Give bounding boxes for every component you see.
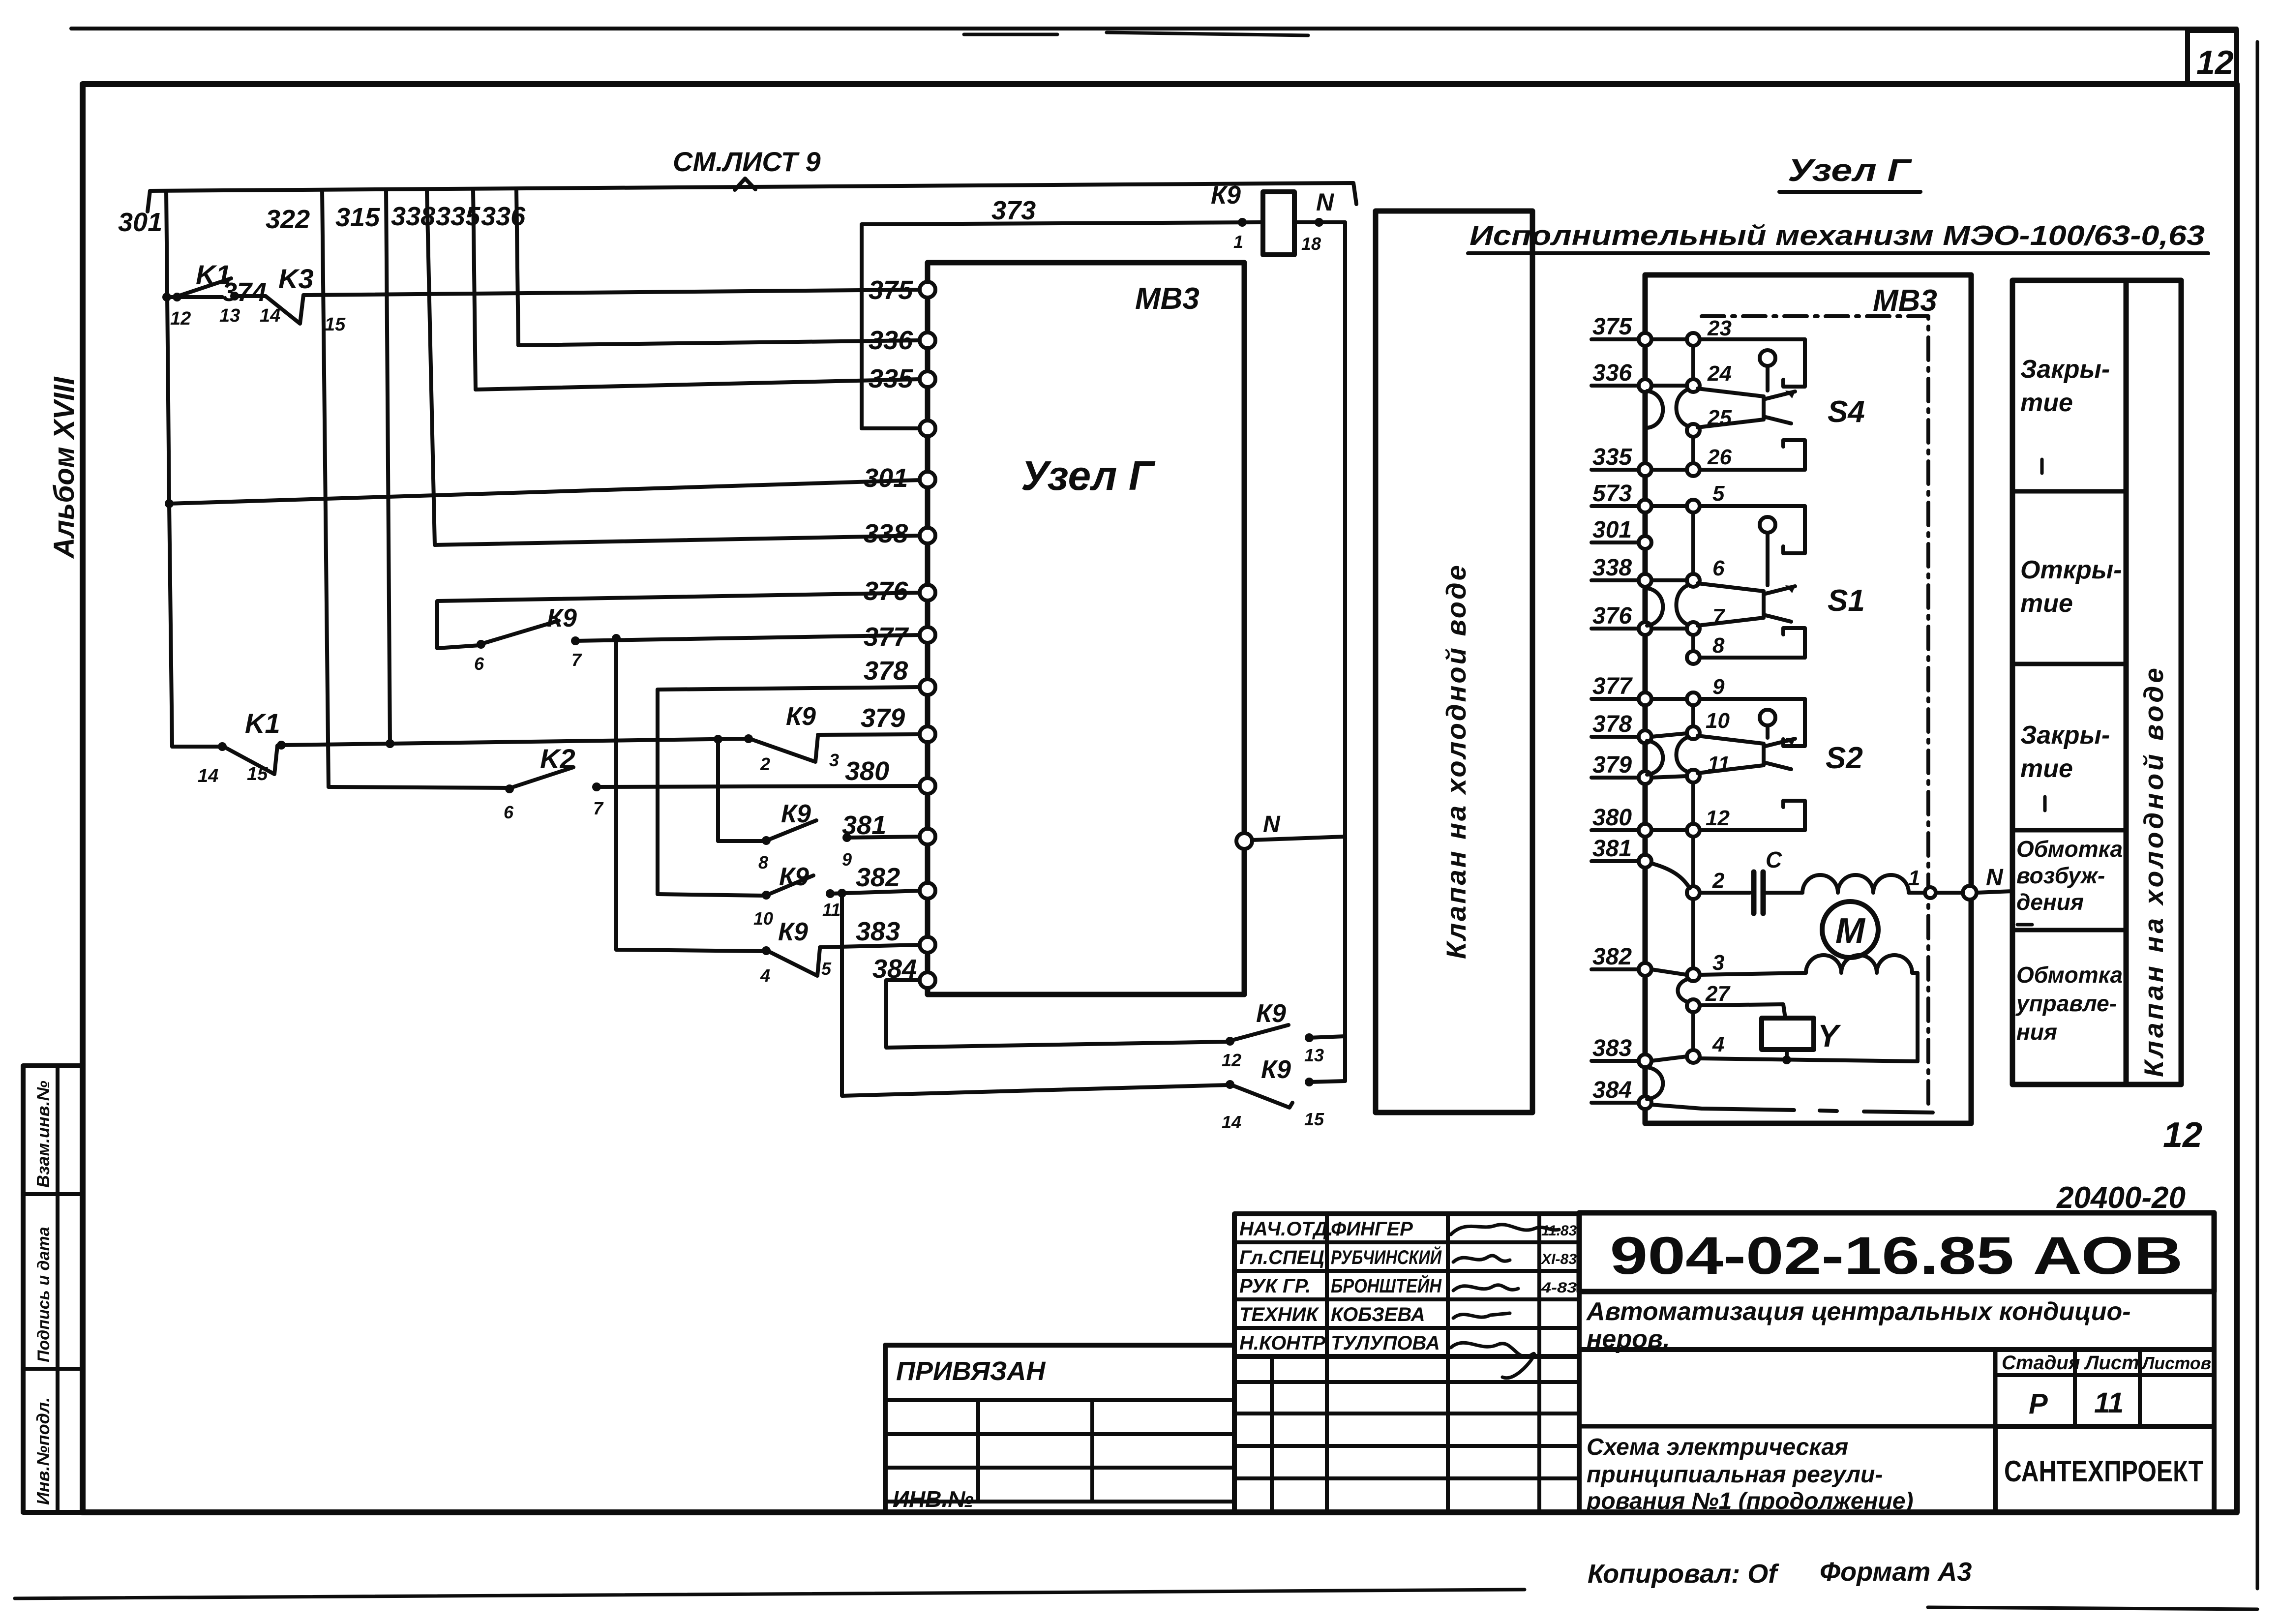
svg-text:Обмотка: Обмотка [2016, 836, 2123, 862]
wire 373 [862, 222, 1263, 428]
svg-text:301: 301 [118, 208, 162, 237]
svg-text:НАЧ.ОТД.: НАЧ.ОТД. [1239, 1218, 1333, 1240]
terminal 336 [1639, 379, 1651, 392]
svg-text:12: 12 [170, 308, 191, 329]
box Клапан на холодной воде (right valve) [2126, 280, 2181, 1084]
svg-text:12: 12 [2196, 44, 2234, 81]
svg-text:15: 15 [247, 764, 268, 784]
svg-text:РУК ГР.: РУК ГР. [1239, 1275, 1311, 1297]
svg-text:Листов: Листов [2141, 1353, 2211, 1373]
pin 26 [1687, 463, 1700, 476]
terminal 335 [1639, 463, 1651, 476]
svg-text:3: 3 [1712, 951, 1724, 975]
svg-text:379: 379 [1592, 752, 1632, 778]
svg-text:378: 378 [1592, 711, 1632, 737]
svg-text:381: 381 [1592, 836, 1632, 862]
motor M [1822, 902, 1878, 958]
svg-text:управле-: управле- [2015, 991, 2117, 1016]
svg-text:К9: К9 [1261, 1055, 1291, 1084]
svg-text:N: N [1263, 812, 1281, 838]
svg-text:Р: Р [2029, 1388, 2048, 1420]
svg-text:383: 383 [856, 917, 900, 946]
wire 377 [575, 635, 920, 641]
svg-text:375: 375 [1592, 314, 1632, 340]
wire pin 4 row [1700, 1058, 1918, 1061]
wire 15 to N [1309, 1081, 1345, 1082]
terminal 380 [1639, 824, 1651, 837]
terminal 378 [1639, 730, 1651, 743]
node 380 stub [1591, 828, 1639, 832]
svg-text:8: 8 [758, 852, 768, 872]
pin 2 [1687, 886, 1700, 899]
pin 11 [1687, 770, 1700, 782]
terminal N [1963, 886, 1977, 900]
wire winding loop [1912, 973, 1918, 1061]
svg-text:Клапан на холодной воде: Клапан на холодной воде [2138, 665, 2169, 1077]
pin 7 [1687, 622, 1700, 635]
svg-text:3: 3 [829, 750, 839, 770]
jumper pins 10-11 [1677, 736, 1692, 773]
bracket marker [735, 179, 755, 190]
svg-text:23: 23 [1707, 316, 1732, 340]
svg-text:336: 336 [1592, 360, 1632, 386]
svg-text:ПРИВЯЗАН: ПРИВЯЗАН [896, 1356, 1046, 1386]
svg-text:338: 338 [1592, 555, 1632, 581]
svg-text:383: 383 [1592, 1035, 1632, 1061]
svg-text:15: 15 [325, 314, 346, 335]
relay coil K9 [1238, 218, 1247, 227]
svg-text:336: 336 [869, 326, 913, 355]
svg-text:Узел Г: Узел Г [1021, 452, 1156, 499]
svg-text:K2: K2 [540, 743, 575, 774]
wire pin 3 row [1700, 973, 1806, 975]
svg-text:тие: тие [2020, 589, 2073, 618]
svg-text:301: 301 [864, 463, 908, 493]
svg-text:Копировал: Оf: Копировал: Оf [1588, 1559, 1779, 1589]
wire 335 horizontal [476, 379, 920, 390]
svg-text:14: 14 [198, 766, 218, 786]
svg-text:1: 1 [1233, 232, 1243, 252]
wire Y bottom [1785, 1050, 1789, 1060]
svg-text:13: 13 [1304, 1045, 1324, 1065]
svg-text:ТУЛУПОВА: ТУЛУПОВА [1331, 1332, 1440, 1354]
jumper hop 338-376 [1647, 588, 1663, 626]
svg-text:322: 322 [266, 205, 310, 234]
svg-text:тие: тие [2020, 754, 2073, 783]
wire bus СМ.ЛИСТ 9 [148, 183, 1356, 211]
wire 335 vertical dropper [473, 190, 476, 390]
pin 27 [1687, 999, 1700, 1012]
svg-text:К9: К9 [1211, 181, 1241, 210]
svg-text:336: 336 [481, 202, 526, 231]
svg-text:XI-83: XI-83 [1540, 1251, 1577, 1267]
svg-text:Узел Г: Узел Г [1788, 152, 1912, 188]
svg-text:14: 14 [1222, 1112, 1241, 1132]
svg-text:6: 6 [474, 654, 484, 674]
svg-text:12: 12 [2163, 1115, 2202, 1155]
wire 382 [830, 891, 920, 894]
svg-text:ФИНГЕР: ФИНГЕР [1331, 1218, 1413, 1240]
svg-text:377: 377 [864, 622, 909, 652]
svg-text:дения: дения [2016, 889, 2084, 915]
svg-text:4: 4 [1712, 1032, 1724, 1056]
svg-text:Лист: Лист [2084, 1352, 2139, 1374]
svg-text:26: 26 [1707, 445, 1732, 469]
terminals of Узел Г [920, 282, 935, 298]
terminal 381 [1639, 855, 1651, 868]
svg-text:Гл.СПЕЦ: Гл.СПЕЦ [1239, 1247, 1324, 1268]
svg-text:384: 384 [1592, 1077, 1632, 1103]
pin 4 [1687, 1050, 1700, 1063]
terminal 375 [1639, 333, 1651, 346]
jumper pins 3-27 [1678, 978, 1692, 1003]
wire 336 horizontal [518, 340, 920, 345]
svg-text:ТЕХНИК: ТЕХНИК [1239, 1304, 1319, 1325]
device boundary МВ3 dash-dot [1702, 316, 1928, 1110]
svg-text:338: 338 [864, 519, 908, 548]
box Клапан на холодной воде (left valve) [1376, 211, 1532, 1113]
svg-text:К9: К9 [778, 918, 808, 946]
contact K1 (12-13) [167, 295, 222, 299]
winding control (обмотка управления) [1806, 955, 1912, 973]
svg-text:5: 5 [1712, 481, 1725, 506]
svg-text:335: 335 [869, 364, 913, 393]
terminal 376 [1639, 622, 1651, 635]
svg-text:К9: К9 [781, 800, 811, 828]
wire pin 27 to Y [1700, 1004, 1785, 1018]
svg-text:7: 7 [571, 650, 582, 670]
svg-text:САНТЕХПРОЕКТ: САНТЕХПРОЕКТ [2004, 1455, 2203, 1488]
svg-text:Y: Y [1818, 1018, 1841, 1053]
wire 338 vertical dropper [427, 190, 435, 545]
svg-text:Взам.инв.№: Взам.инв.№ [33, 1081, 53, 1188]
terminal 301 [1639, 536, 1651, 549]
svg-text:9: 9 [1712, 675, 1725, 699]
jumper pins 6-7 [1677, 584, 1692, 626]
svg-text:рования №1 (продолжение): рования №1 (продолжение) [1586, 1488, 1913, 1514]
switch S1 [1698, 506, 1805, 658]
node 381 stub [1591, 859, 1639, 863]
wire feeder 11 to K9 14-15 [842, 893, 1229, 1096]
svg-text:27: 27 [1705, 982, 1731, 1006]
wire 338 horizontal [435, 536, 920, 545]
wire N stub [1252, 837, 1345, 840]
svg-text:K1: K1 [245, 708, 280, 739]
node 301 stub [1591, 541, 1639, 544]
svg-text:Подпись и дата: Подпись и дата [34, 1227, 53, 1362]
terminal 338 [1639, 574, 1651, 587]
contact K2 (6-7) [329, 787, 508, 788]
wire 384 to K9 12-13 [886, 980, 1229, 1048]
svg-text:9: 9 [842, 849, 852, 870]
svg-text:376: 376 [864, 576, 908, 606]
svg-text:Инв.№подл.: Инв.№подл. [33, 1397, 53, 1505]
wire 376 horizontal [437, 593, 920, 648]
svg-text:10: 10 [753, 908, 773, 929]
svg-text:Схема электрическая: Схема электрическая [1587, 1434, 1848, 1460]
svg-text:904-02-16.85 АОВ: 904-02-16.85 АОВ [1610, 1226, 2183, 1285]
svg-text:1: 1 [1908, 866, 1920, 890]
svg-text:6: 6 [504, 802, 514, 822]
svg-text:573: 573 [1592, 481, 1632, 507]
svg-text:Закры-: Закры- [2020, 355, 2110, 384]
node 384 stub [1591, 1101, 1639, 1105]
switch S4 [1698, 339, 1805, 470]
wire 374 [235, 294, 266, 298]
svg-text:Закры-: Закры- [2020, 721, 2110, 750]
svg-text:РУБЧИНСКИЙ: РУБЧИНСКИЙ [1331, 1245, 1442, 1268]
pin 23 [1687, 333, 1700, 346]
wire 380 [597, 786, 920, 787]
svg-text:КОБЗЕВА: КОБЗЕВА [1331, 1304, 1425, 1325]
svg-text:4-83: 4-83 [1541, 1280, 1577, 1296]
node 383 stub [1591, 1059, 1639, 1063]
svg-text:11: 11 [822, 900, 840, 920]
svg-text:381: 381 [842, 811, 886, 840]
box actuator МЭО enclosure [1645, 275, 1971, 1123]
wire 315 vertical dropper [386, 190, 390, 744]
contact K3 (14-15) [266, 295, 303, 324]
svg-text:К9: К9 [786, 702, 816, 731]
svg-text:377: 377 [1592, 673, 1633, 699]
svg-text:373: 373 [991, 196, 1036, 225]
svg-text:K3: K3 [278, 263, 314, 294]
svg-text:376: 376 [1592, 603, 1632, 629]
pin 6 [1687, 574, 1700, 587]
node 378 stub [1591, 735, 1639, 739]
capacitor C [1700, 891, 1750, 895]
terminal 379 [1639, 771, 1651, 784]
svg-text:374: 374 [222, 277, 267, 307]
wire 301 horizontal [169, 480, 920, 504]
node 375 stub [1591, 337, 1639, 341]
wire pin1 to N [1909, 891, 1970, 895]
pin 25 [1687, 424, 1700, 437]
jumper hop 383-384 [1647, 1067, 1663, 1099]
terminal 377 [1639, 692, 1651, 705]
contact K9 (6-7) [437, 645, 480, 648]
svg-text:380: 380 [845, 756, 889, 786]
svg-text:МВ3: МВ3 [1873, 284, 1937, 318]
svg-text:7: 7 [593, 798, 604, 818]
svg-text:N: N [1316, 188, 1334, 216]
node 336 stub [1591, 384, 1639, 388]
svg-text:2: 2 [1712, 869, 1725, 893]
svg-text:МВ3: МВ3 [1135, 282, 1200, 316]
svg-text:380: 380 [1592, 805, 1632, 831]
svg-text:384: 384 [872, 954, 917, 984]
connector 381 to pin 2 [1652, 864, 1690, 888]
node 376 stub [1591, 627, 1639, 631]
svg-text:15: 15 [1304, 1109, 1324, 1129]
svg-text:К9: К9 [1256, 999, 1286, 1028]
pin 10 [1687, 726, 1700, 739]
jumper hop 336-335 [1647, 391, 1663, 428]
svg-text:4: 4 [760, 965, 770, 986]
svg-text:БРОНШТЕЙН: БРОНШТЕЙН [1331, 1274, 1442, 1297]
contact K9 (2-3) [744, 734, 753, 743]
svg-text:6: 6 [1712, 556, 1725, 580]
svg-text:382: 382 [856, 863, 900, 892]
wire N stub right [1977, 891, 2012, 893]
wire terminal bus [1643, 339, 1647, 1103]
jumper pins 24-25 [1677, 389, 1692, 427]
svg-text:Альбом XVIII: Альбом XVIII [48, 376, 80, 559]
svg-text:335: 335 [436, 202, 480, 231]
svg-text:Формат А3: Формат А3 [1820, 1557, 1972, 1587]
svg-text:Стадия: Стадия [2002, 1352, 2080, 1374]
wire 375 to node [303, 290, 920, 295]
box Узел Г (МВ3 unit) [928, 263, 1244, 994]
svg-text:ИНВ.№: ИНВ.№ [893, 1486, 974, 1512]
svg-text:Клапан на холодной вод: Клапан на холодной воде [1440, 563, 1471, 959]
wire 13 to N [1309, 1036, 1345, 1038]
svg-text:S1: S1 [1828, 584, 1865, 618]
contact K9 (4-5) [616, 950, 765, 951]
svg-text:301: 301 [1592, 517, 1632, 543]
terminal 383 [1639, 1054, 1651, 1067]
wire row 15-2 [281, 739, 748, 745]
contact K9 (10-11) [658, 894, 765, 896]
terminal 382 [1639, 963, 1651, 976]
winding excitation (обмотка возбуждения) [1763, 891, 1802, 895]
svg-text:24: 24 [1707, 361, 1732, 386]
svg-text:К9: К9 [547, 604, 577, 632]
svg-text:C: C [1766, 847, 1782, 872]
svg-text:12: 12 [1222, 1050, 1241, 1070]
svg-text:Обмотка: Обмотка [2016, 962, 2123, 988]
wire 383 [820, 945, 920, 947]
svg-text:20400-20: 20400-20 [2056, 1181, 2186, 1215]
svg-text:375: 375 [869, 275, 913, 305]
svg-text:338: 338 [391, 202, 435, 231]
pin 9 [1687, 692, 1700, 705]
svg-text:315: 315 [335, 203, 380, 232]
terminal N of Узел Г [1236, 833, 1252, 849]
wire 301 vertical dropper [166, 191, 172, 747]
contact K9 (12-13) [1226, 1037, 1234, 1046]
svg-text:принципиальная регули-: принципиальная регули- [1587, 1462, 1883, 1488]
pin 8 [1687, 651, 1700, 664]
svg-text:335: 335 [1592, 444, 1632, 470]
wire 381 [847, 837, 920, 838]
node 335 stub [1591, 468, 1639, 472]
svg-text:S4: S4 [1828, 395, 1865, 429]
node 573 stub [1591, 504, 1639, 508]
wire 322 vertical dropper [322, 190, 329, 787]
node 377 stub [1591, 697, 1639, 701]
legend box column [2012, 280, 2126, 1084]
wire 384 row [1651, 1105, 1794, 1110]
svg-text:382: 382 [1592, 944, 1632, 970]
wire 336 vertical dropper [516, 190, 518, 345]
svg-text:возбуж-: возбуж- [2016, 863, 2105, 888]
svg-text:Исполнительный механизм МЭО-: Исполнительный механизм МЭО-100/63-0,63 [1470, 220, 2205, 251]
svg-text:2: 2 [760, 754, 770, 774]
svg-text:10: 10 [1706, 709, 1730, 733]
wire 379 [818, 734, 920, 735]
svg-text:СМ.ЛИСТ 9: СМ.ЛИСТ 9 [673, 146, 821, 177]
svg-text:S2: S2 [1826, 741, 1863, 775]
svg-text:378: 378 [864, 656, 908, 686]
wire N vertical [1343, 222, 1347, 1081]
pin 12 [1687, 824, 1700, 837]
contact K9 (14-15) [1226, 1080, 1234, 1089]
svg-text:8: 8 [1712, 633, 1725, 658]
contact K1 lower (14-15) [172, 745, 221, 749]
svg-text:18: 18 [1301, 234, 1321, 254]
svg-text:ния: ния [2016, 1019, 2057, 1045]
wire feeder to K9 4-5 [614, 638, 618, 950]
svg-text:14: 14 [260, 305, 280, 326]
svg-text:тие: тие [2020, 389, 2073, 417]
pin 3 [1687, 968, 1700, 981]
terminal 384 [1639, 1096, 1651, 1109]
svg-text:13: 13 [219, 305, 240, 326]
svg-text:12: 12 [1706, 806, 1730, 830]
svg-text:5: 5 [821, 959, 832, 979]
pin 24 [1687, 379, 1700, 392]
svg-text:К9: К9 [779, 863, 809, 891]
svg-text:11: 11 [2094, 1387, 2124, 1419]
node 379 stub [1591, 776, 1639, 780]
connector wires bus to pins [1651, 337, 1687, 341]
svg-text:Н.КОНТР: Н.КОНТР [1239, 1332, 1325, 1354]
node 382 stub [1591, 967, 1639, 971]
svg-text:N: N [1986, 865, 2004, 891]
svg-text:Откры-: Откры- [2020, 556, 2122, 584]
wire feeder to K9 8-9 [716, 739, 720, 841]
wire 378 [658, 687, 920, 894]
terminal 573 [1639, 500, 1651, 512]
jumper hop 378-379 [1647, 741, 1663, 775]
pin column segments [1691, 339, 1695, 386]
pin 5 [1687, 500, 1700, 512]
contact K9 (8-9) [718, 839, 765, 843]
device Y [1762, 1018, 1814, 1050]
svg-text:Автоматизация центральных к: Автоматизация центральных кондицио- [1586, 1297, 2131, 1326]
svg-text:379: 379 [861, 703, 905, 733]
node 338 stub [1591, 578, 1639, 582]
switch S2 [1698, 699, 1805, 830]
svg-text:М: М [1835, 911, 1866, 951]
